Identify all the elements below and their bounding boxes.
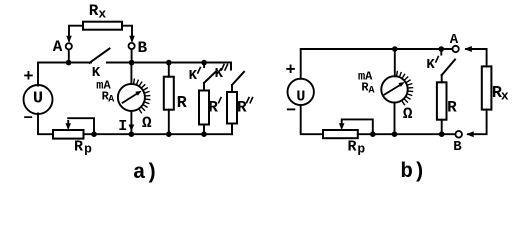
label R' (a) (208, 98, 218, 116)
resistor R (b) (437, 82, 447, 134)
svg-text:R: R (74, 139, 83, 156)
node R' top junction (201, 60, 207, 66)
voltage source U (a) (24, 85, 53, 114)
milliammeter mA/RA (b) (381, 49, 407, 103)
svg-text:K: K (189, 68, 198, 84)
bottom bus wire (a) (84, 124, 233, 135)
wire U+ up and right to terminal A (b) (301, 49, 453, 79)
milliammeter mA/RA (a) (118, 63, 145, 111)
meter scale ticks (b) (397, 72, 413, 105)
svg-text:x: x (98, 6, 106, 21)
svg-text:b): b) (400, 161, 425, 184)
svg-text:A: A (450, 32, 459, 48)
wire Rx bottom with arrow to terminal B (b) (466, 110, 486, 138)
wire Rx right lead with arrow to B (122, 26, 135, 43)
wire meter to bottom bus (b) (394, 103, 396, 135)
node R bottom junction (166, 131, 172, 137)
node R top junction (166, 60, 172, 66)
svg-text:A: A (53, 38, 63, 56)
resistor R' (a) (199, 91, 209, 135)
node meter top junction (b) (392, 46, 398, 52)
node R' bottom junction (201, 131, 207, 137)
svg-text:a): a) (133, 162, 158, 185)
label Rp (a) (74, 139, 92, 157)
svg-text:+: + (285, 62, 295, 81)
svg-text:+: + (23, 68, 33, 87)
terminal A (b) (452, 46, 458, 52)
svg-text:x: x (501, 88, 509, 103)
switch K'' (a) (231, 63, 244, 93)
node K' top junction (b) (439, 46, 445, 52)
svg-text:−: − (286, 102, 296, 121)
svg-text:R: R (237, 98, 247, 116)
svg-text:Ω: Ω (142, 114, 152, 132)
node A junction (66, 60, 72, 66)
label Rp (b) (347, 138, 365, 156)
label R'' (a) (237, 98, 247, 116)
label K' (b) (426, 57, 435, 73)
svg-text:B: B (453, 139, 462, 155)
label K' (a) (189, 68, 198, 84)
terminal B (129, 43, 135, 63)
voltage source U (b) (288, 79, 314, 106)
node Rp wiper junction (91, 131, 97, 137)
svg-text:A: A (108, 95, 114, 106)
wire U− down to bottom bus (38, 114, 53, 135)
svg-text:p: p (357, 141, 365, 156)
node B junction (129, 60, 135, 66)
wire meter to bottom bus with current arrow (129, 111, 135, 134)
svg-text:R: R (447, 99, 457, 117)
label RA (b) (361, 80, 374, 96)
wire K to node B (107, 62, 132, 64)
svg-text:p: p (84, 142, 92, 157)
meter scale ticks (a) (134, 79, 150, 113)
wire U− down to bottom bus (b) (301, 105, 323, 134)
resistor R (a) (164, 63, 174, 135)
node Rp wiper junction (b) (370, 131, 376, 137)
svg-text:B: B (137, 39, 147, 57)
svg-text:Ω: Ω (403, 105, 413, 123)
node meter bottom junction (129, 131, 135, 137)
wire top bus node B to R'' branch (132, 63, 231, 70)
svg-text:R: R (177, 94, 188, 113)
svg-text:I: I (118, 118, 127, 135)
svg-text:K: K (426, 57, 435, 73)
svg-text:−: − (23, 109, 33, 127)
node R bottom junction (b) (439, 131, 445, 137)
resistor Rx (a) (83, 22, 122, 30)
switch K blade (90, 49, 110, 63)
terminal A (66, 43, 72, 62)
label Rx (a) (89, 2, 107, 21)
potentiometer Rp (a) (53, 118, 94, 138)
svg-text:R: R (89, 2, 99, 20)
label K'' (a) (215, 66, 224, 82)
svg-text:U: U (296, 88, 305, 105)
svg-text:R: R (347, 138, 356, 155)
svg-text:R: R (208, 98, 218, 116)
bottom bus wire (b) (358, 133, 455, 135)
switch K' (b) (441, 49, 455, 82)
wire Rx left lead with arrow to A (66, 26, 83, 43)
svg-text:A: A (368, 85, 374, 96)
svg-text:U: U (33, 90, 43, 109)
potentiometer Rp (b) (323, 119, 373, 138)
wire U+ up and right to switch K (38, 63, 91, 86)
label RA (a) (102, 90, 115, 106)
arrow to terminal A (b) (464, 46, 486, 66)
resistor R'' (a) (227, 92, 237, 134)
node meter bottom junction (b) (392, 131, 398, 137)
label Rx (b) (492, 84, 509, 103)
terminal B (b) (455, 131, 462, 138)
switch K' (a) (204, 63, 217, 91)
resistor Rx (b) (482, 66, 492, 109)
